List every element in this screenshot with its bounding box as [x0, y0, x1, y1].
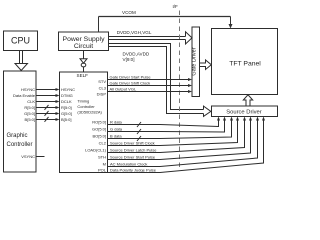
- svg-text:G[5:0]: G[5:0]: [24, 111, 35, 116]
- svg-text:VSYNC: VSYNC: [21, 154, 35, 159]
- svg-text:V[9:0]: V[9:0]: [123, 57, 135, 62]
- svg-text:I/F: I/F: [173, 4, 179, 9]
- svg-text:HSYNC: HSYNC: [21, 87, 35, 92]
- svg-text:DISP: DISP: [97, 92, 107, 97]
- svg-text:Graphic: Graphic: [7, 133, 28, 139]
- svg-text:Controller: Controller: [7, 142, 33, 148]
- svg-text:DTMG: DTMG: [61, 93, 73, 98]
- svg-text:Data Enable: Data Enable: [13, 93, 36, 98]
- svg-text:Source Driver Shift Clock: Source Driver Shift Clock: [110, 141, 155, 146]
- svg-text:Timing: Timing: [77, 99, 89, 104]
- svg-text:STH: STH: [98, 155, 106, 160]
- svg-text:Circuit: Circuit: [74, 43, 93, 50]
- svg-text:B data: B data: [110, 134, 122, 139]
- svg-text:Data Polarity Judge Pulse: Data Polarity Judge Pulse: [110, 168, 157, 173]
- svg-text:Source Driver: Source Driver: [226, 109, 262, 115]
- svg-text:M: M: [103, 162, 106, 167]
- svg-text:LOAD(CL1): LOAD(CL1): [85, 148, 107, 153]
- svg-text:Source Driver Latch Pulse: Source Driver Latch Pulse: [110, 148, 157, 153]
- svg-text:Gate Driver Start Pulse: Gate Driver Start Pulse: [110, 75, 152, 80]
- svg-text:CPU: CPU: [11, 36, 30, 46]
- svg-text:B[5:0]: B[5:0]: [61, 117, 71, 122]
- svg-text:RO[5:0]: RO[5:0]: [92, 120, 106, 125]
- svg-text:R[5:0]: R[5:0]: [61, 105, 72, 110]
- svg-text:CLK: CLK: [27, 99, 35, 104]
- svg-text:HSYNC: HSYNC: [61, 87, 75, 92]
- svg-text:BO[5:0]: BO[5:0]: [92, 134, 106, 139]
- svg-text:Power Supply: Power Supply: [63, 36, 106, 43]
- svg-text:CL2: CL2: [99, 141, 107, 146]
- svg-text:DVDD,VGH,VGL: DVDD,VGH,VGL: [117, 30, 152, 35]
- svg-text:Gate Driver: Gate Driver: [192, 47, 198, 75]
- svg-text:GO[5:0]: GO[5:0]: [92, 127, 106, 132]
- svg-text:Controller: Controller: [77, 104, 95, 109]
- svg-text:SELF: SELF: [77, 73, 89, 78]
- svg-text:DVDD,AVDD: DVDD,AVDD: [123, 52, 150, 57]
- svg-text:Gate Driver Shift Clock: Gate Driver Shift Clock: [110, 81, 151, 86]
- svg-text:(3D50D282A): (3D50D282A): [77, 110, 102, 115]
- svg-text:All Output VGL: All Output VGL: [110, 87, 137, 92]
- svg-text:POL: POL: [98, 168, 107, 173]
- svg-text:R data: R data: [110, 120, 123, 125]
- svg-text:G data: G data: [110, 127, 123, 132]
- svg-text:VCOM: VCOM: [122, 10, 136, 15]
- svg-text:DCLK: DCLK: [61, 99, 72, 104]
- svg-text:TFT Panel: TFT Panel: [229, 61, 261, 68]
- svg-text:G[5:0]: G[5:0]: [61, 111, 72, 116]
- svg-text:CL3: CL3: [99, 85, 107, 90]
- svg-text:B[5:0]: B[5:0]: [25, 117, 35, 122]
- svg-text:R[5:0]: R[5:0]: [24, 105, 35, 110]
- svg-text:AC Modulation Clock: AC Modulation Clock: [110, 162, 147, 167]
- svg-text:Source Driver Start Pulse: Source Driver Start Pulse: [110, 155, 156, 160]
- svg-text:STV: STV: [98, 79, 106, 84]
